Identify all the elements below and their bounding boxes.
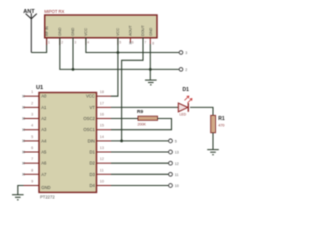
- svg-text:U1: U1: [36, 85, 43, 91]
- svg-text:3: 3: [185, 51, 187, 55]
- VT wire to LED: [111, 106, 178, 108]
- svg-text:470: 470: [218, 123, 224, 127]
- module GND wire down: [149, 44, 151, 80]
- svg-text:GND: GND: [58, 27, 62, 36]
- svg-text:D2: D2: [89, 161, 95, 166]
- svg-text:AOUT: AOUT: [129, 25, 133, 36]
- svg-text:5: 5: [119, 41, 121, 45]
- svg-text:1: 1: [48, 41, 50, 45]
- D4 row wire: [111, 185, 169, 187]
- terminal 10: [169, 184, 179, 189]
- svg-text:7: 7: [144, 41, 146, 45]
- svg-text:3: 3: [74, 41, 76, 45]
- svg-text:A7: A7: [41, 172, 47, 177]
- junction DIN: [120, 140, 123, 143]
- svg-text:11: 11: [100, 168, 104, 172]
- svg-text:D3: D3: [89, 172, 95, 177]
- U1 right pin names: [83, 94, 95, 188]
- R1 to ground wire: [212, 133, 214, 150]
- svg-text:11: 11: [175, 173, 179, 177]
- junction GND2: [72, 68, 75, 71]
- svg-text:PT2272: PT2272: [40, 194, 55, 199]
- svg-text:RF IN: RF IN: [45, 26, 49, 36]
- U1 left pin numbers: [31, 90, 33, 183]
- IC U1 (PT2272): [36, 85, 97, 200]
- svg-text:OSC2: OSC2: [83, 116, 95, 121]
- svg-text:DIN: DIN: [88, 138, 95, 143]
- wire GND2 down: [72, 38, 74, 70]
- svg-text:12: 12: [175, 162, 179, 166]
- svg-text:MIPOT RX: MIPOT RX: [44, 9, 64, 14]
- svg-text:GND: GND: [41, 185, 50, 190]
- svg-text:A5: A5: [41, 150, 47, 155]
- LED D1: [178, 87, 192, 117]
- terminal 12: [169, 161, 179, 166]
- svg-text:A0: A0: [41, 94, 47, 99]
- svg-text:3: 3: [31, 113, 33, 117]
- svg-text:2: 2: [185, 68, 187, 72]
- terminal 13: [169, 150, 179, 155]
- junction module GND: [149, 68, 152, 71]
- wire antenna to RF IN: [31, 38, 46, 53]
- svg-text:5: 5: [31, 135, 33, 139]
- module pin stubs: [47, 38, 151, 45]
- terminal 5: [169, 139, 177, 144]
- svg-text:D1: D1: [183, 87, 190, 93]
- svg-text:R9: R9: [137, 109, 143, 115]
- svg-text:R1: R1: [218, 116, 225, 122]
- svg-text:ANT: ANT: [23, 9, 35, 15]
- svg-text:15: 15: [100, 124, 104, 128]
- svg-text:6: 6: [31, 146, 33, 150]
- svg-text:6: 6: [132, 41, 134, 45]
- svg-text:DOUT: DOUT: [141, 25, 145, 36]
- svg-text:GND: GND: [149, 27, 153, 36]
- GND row wire to terminal 2: [73, 68, 179, 70]
- svg-text:2: 2: [31, 101, 33, 105]
- svg-text:A3: A3: [41, 127, 47, 132]
- DIN row wire to terminal: [122, 140, 169, 142]
- D2 row wire: [111, 162, 169, 164]
- U1 right pin stubs: [97, 96, 112, 185]
- svg-text:D4: D4: [89, 183, 95, 188]
- svg-text:10: 10: [100, 180, 104, 184]
- R9 to OSC1 loop wire: [111, 119, 172, 130]
- svg-text:200K: 200K: [138, 122, 147, 126]
- module pin names (rotated): [45, 25, 153, 36]
- module MIPOT RX: [44, 9, 157, 38]
- svg-text:9: 9: [31, 180, 33, 184]
- terminal 11: [169, 172, 179, 176]
- junction VCC rail: [117, 51, 120, 54]
- D3 row wire: [111, 173, 169, 175]
- svg-text:VCC: VCC: [116, 28, 120, 36]
- svg-text:14: 14: [100, 135, 104, 139]
- svg-text:GND: GND: [71, 27, 75, 36]
- svg-text:A2: A2: [41, 116, 47, 121]
- svg-text:5: 5: [175, 140, 177, 144]
- svg-text:LED: LED: [180, 113, 187, 117]
- svg-text:17: 17: [100, 101, 104, 105]
- U1 GND wire to ground: [18, 186, 24, 195]
- svg-text:16: 16: [100, 113, 104, 117]
- module pin numbers: [48, 41, 154, 46]
- svg-text:A4: A4: [41, 138, 47, 143]
- terminal 3: [179, 51, 187, 56]
- svg-text:VCC: VCC: [86, 94, 95, 99]
- U1 left pin stubs: [24, 96, 40, 185]
- svg-text:OSC1: OSC1: [83, 127, 95, 132]
- svg-text:4: 4: [87, 41, 89, 45]
- svg-text:D1: D1: [89, 150, 95, 155]
- D1 row wire: [111, 151, 169, 153]
- U1 left unconnected marks: [22, 95, 24, 175]
- svg-text:1: 1: [31, 90, 33, 94]
- svg-text:10: 10: [175, 184, 179, 188]
- svg-text:13: 13: [175, 151, 179, 155]
- U1 left pin names: [41, 94, 50, 190]
- svg-text:12: 12: [100, 157, 104, 161]
- VCC drop to U1: [111, 38, 118, 96]
- svg-text:A1: A1: [41, 105, 47, 110]
- unconnected pin mark AOUT: [129, 42, 131, 44]
- svg-text:18: 18: [100, 90, 104, 94]
- svg-text:7: 7: [31, 157, 33, 161]
- OSC2 wire to R9: [111, 118, 138, 120]
- svg-text:A6: A6: [41, 161, 47, 166]
- svg-text:8: 8: [152, 41, 154, 45]
- ground (R1): [207, 150, 219, 155]
- resistor R9: [137, 109, 158, 126]
- wire GND1 to gnd row: [60, 38, 73, 70]
- VCC rail wire: [86, 38, 179, 53]
- terminal 2: [179, 68, 187, 73]
- svg-text:13: 13: [100, 146, 104, 150]
- antenna ANT: [26, 13, 37, 52]
- svg-text:VCC: VCC: [84, 28, 88, 36]
- svg-text:VT: VT: [89, 105, 95, 110]
- LED to R1 wire: [190, 107, 213, 115]
- ground (U1): [12, 195, 24, 200]
- resistor R1: [211, 115, 225, 132]
- DOUT wire to DIN: [111, 38, 143, 141]
- svg-text:2: 2: [61, 41, 63, 45]
- ground (module): [145, 80, 157, 85]
- svg-text:4: 4: [31, 124, 33, 128]
- svg-text:8: 8: [31, 168, 33, 172]
- U1 right pin numbers: [100, 90, 104, 183]
